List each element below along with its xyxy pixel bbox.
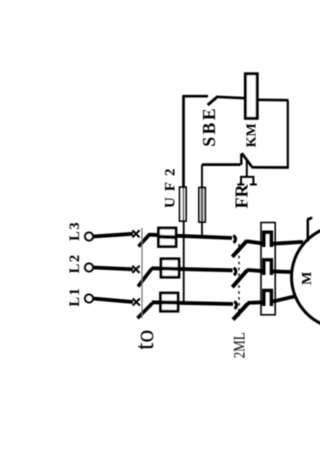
fuse FU2b (control) <box>199 188 205 222</box>
wire FR contact to fuse FU2b <box>202 163 241 166</box>
svg-text:L1: L1 <box>67 287 83 307</box>
wire coil to right leg <box>257 98 288 101</box>
switch QS fixed contact x L3 <box>132 230 139 237</box>
svg-text:2ML: 2ML <box>231 332 248 358</box>
motor M circle <box>292 226 320 329</box>
wire L3 switch to contactor <box>150 235 233 238</box>
thermal relay FR contact stem <box>246 161 248 177</box>
thermal relay FR heater element L2 <box>264 260 272 275</box>
wire KM to heater L1 <box>248 300 265 304</box>
thermal relay FR heater box <box>261 223 275 315</box>
node L3 terminal <box>85 233 93 241</box>
switch QS fixed contact x L1 <box>133 298 140 305</box>
svg-text:M: M <box>300 272 315 285</box>
contactor KM fixed contact hook L3 <box>233 236 235 243</box>
thermal relay FR heater element L1 <box>264 290 272 306</box>
contactor KM blade L1 <box>233 303 248 319</box>
contactor KM fixed contact hook L1 <box>234 302 236 309</box>
fuse FU L2 <box>161 259 179 277</box>
switch QS linkage line <box>141 228 143 318</box>
motor terminal stub <box>307 217 311 242</box>
fuse FU2a (control) <box>180 187 186 221</box>
switch QS blade L2 <box>138 268 152 286</box>
svg-text:UF2: UF2 <box>163 163 179 209</box>
node L1 terminal <box>85 295 93 303</box>
thermal relay FR contact blade <box>242 153 252 167</box>
fuse FU L3 <box>159 228 177 247</box>
svg-text:KM: KM <box>245 123 260 147</box>
switch QS blade L1 <box>138 303 153 318</box>
thermal relay FR contact bracket <box>237 177 256 185</box>
switch QS blade L3 <box>139 234 151 247</box>
svg-text:to: to <box>130 330 159 350</box>
contactor KM blade L3 <box>232 241 247 257</box>
wire control tap A (to L1) <box>183 221 185 303</box>
contactor KM linkage dashed line <box>238 244 240 317</box>
contactor KM blade L2 <box>232 270 247 287</box>
wire heater to motor L1 <box>271 296 295 302</box>
wire L2 terminal to switch <box>93 268 133 270</box>
node L2 terminal <box>85 264 93 272</box>
pushbutton SBE blade <box>208 98 217 106</box>
wire heater to motor L3 <box>271 242 303 244</box>
wire heater to motor L2 <box>271 269 291 274</box>
wire L1 terminal to switch <box>93 299 133 303</box>
wire right leg down <box>287 100 289 167</box>
wire FR to fuse FU2b down <box>201 165 203 188</box>
svg-text:FR: FR <box>231 184 251 209</box>
svg-text:SBE: SBE <box>199 106 219 147</box>
wire button to coil <box>216 97 245 98</box>
fuse FU L1 <box>161 293 179 311</box>
contactor coil KM <box>245 74 257 119</box>
contactor KM fixed contact hook L2 <box>234 268 236 275</box>
wire L2 switch to contactor <box>152 268 233 270</box>
thermal relay FR heater element L3 <box>264 232 272 247</box>
wire KM to heater L3 <box>247 241 265 243</box>
svg-text:L3: L3 <box>67 221 83 241</box>
wire control tap B (to L3) <box>201 222 203 238</box>
svg-text:L2: L2 <box>67 253 83 273</box>
wire control rail from fuse FU2a up and right <box>182 96 208 187</box>
wire KM to heater L2 <box>247 270 264 271</box>
wire L3 terminal to switch <box>93 234 133 237</box>
thermal relay FR contact riser <box>240 153 242 164</box>
switch QS fixed contact x L2 <box>132 266 139 273</box>
wire L1 switch to contactor <box>152 302 233 304</box>
wire bottom to FR contact <box>252 166 289 169</box>
